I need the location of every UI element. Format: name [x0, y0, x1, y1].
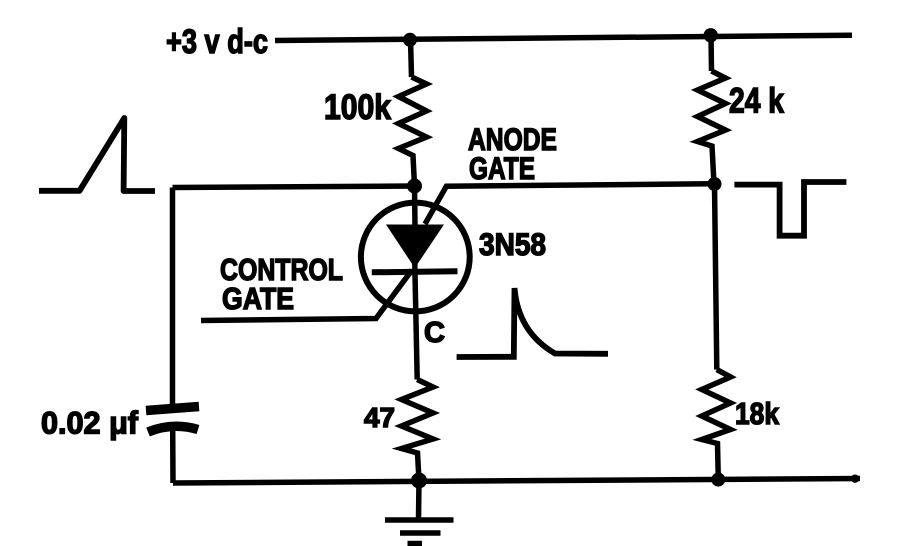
svg-text:100k: 100k	[324, 88, 391, 127]
svg-text:C: C	[424, 317, 445, 349]
svg-text:18k: 18k	[735, 396, 780, 431]
svg-text:GATE: GATE	[469, 150, 535, 186]
svg-text:47: 47	[364, 402, 395, 433]
svg-text:24 k: 24 k	[729, 82, 784, 121]
svg-text:GATE: GATE	[222, 281, 294, 316]
svg-text:+3 v d-c: +3 v d-c	[166, 23, 268, 61]
svg-text:3N58: 3N58	[479, 226, 546, 262]
svg-text:0.02 μf: 0.02 μf	[41, 405, 138, 441]
